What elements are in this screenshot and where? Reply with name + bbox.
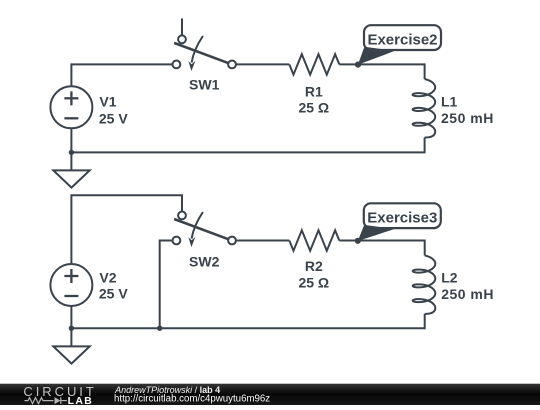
svg-text:V1: V1 <box>99 94 116 110</box>
svg-text:http://circuitlab.com/c4pwuytu: http://circuitlab.com/c4pwuytu6m96z <box>114 393 270 404</box>
svg-text:SW2: SW2 <box>189 253 220 269</box>
svg-text:R1: R1 <box>305 83 323 99</box>
svg-text:SW1: SW1 <box>189 77 220 93</box>
svg-text:Exercise3: Exercise3 <box>367 210 437 227</box>
svg-text:250 mH: 250 mH <box>441 286 494 302</box>
svg-text:25 V: 25 V <box>99 110 128 126</box>
svg-text:V2: V2 <box>99 269 116 285</box>
svg-text:Exercise2: Exercise2 <box>367 32 437 49</box>
svg-text:R2: R2 <box>305 258 323 274</box>
svg-text:25 Ω: 25 Ω <box>298 274 329 290</box>
svg-text:25 V: 25 V <box>99 286 128 302</box>
svg-text:L1: L1 <box>441 93 458 109</box>
svg-text:25 Ω: 25 Ω <box>298 100 329 116</box>
svg-text:LAB: LAB <box>68 396 94 405</box>
svg-text:250 mH: 250 mH <box>441 110 494 126</box>
svg-text:L2: L2 <box>441 270 458 286</box>
